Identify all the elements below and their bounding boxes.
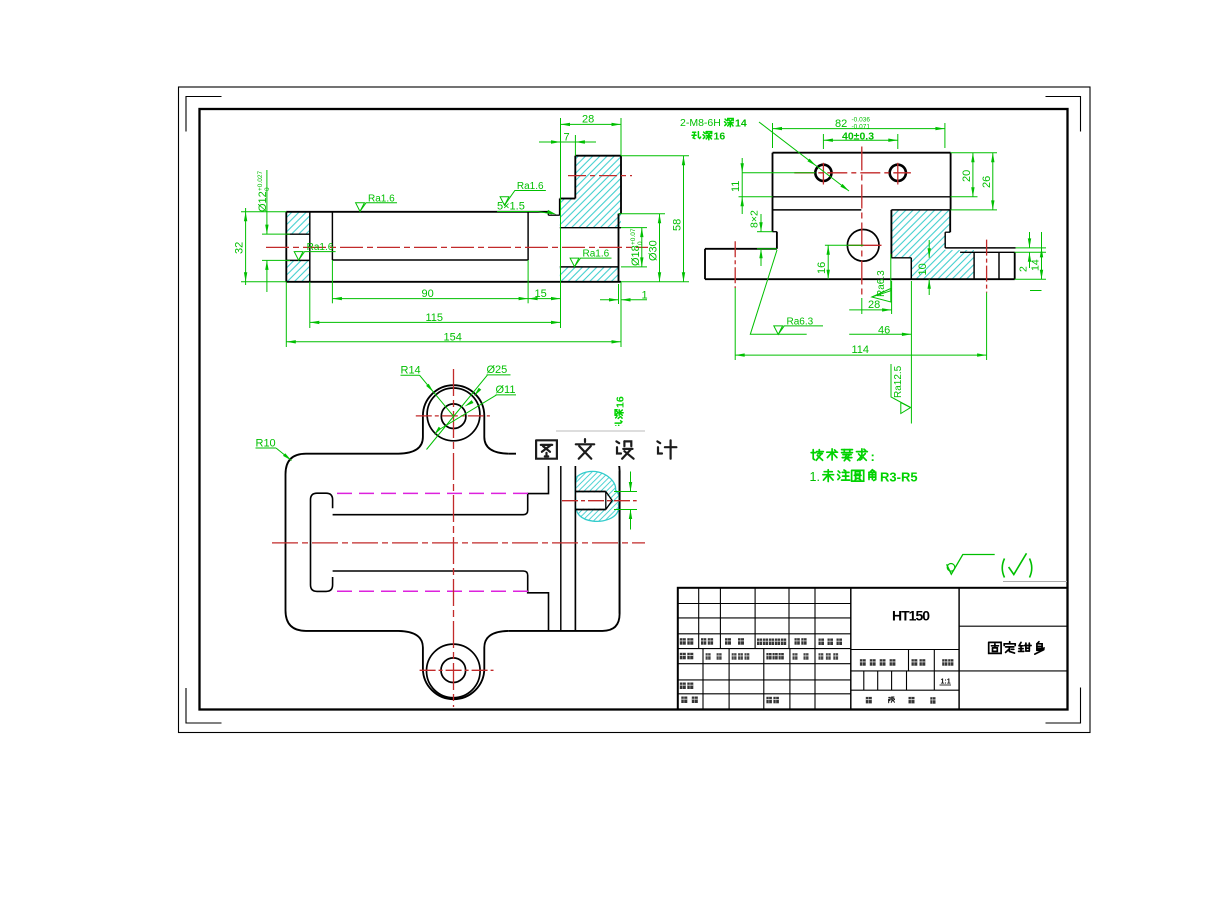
svg-text:1: 1 [642,290,648,302]
svg-text:-0.071: -0.071 [852,123,871,130]
label genggai wenjianhao [757,639,762,646]
svg-text:15: 15 [535,288,547,300]
title mid col a [908,650,910,671]
view2 hatch block left face [890,210,892,258]
svg-text:20: 20 [961,170,973,182]
view2 section hatch [891,210,974,279]
dim dia12 +0.027 [262,233,290,235]
svg-text:1.: 1. [810,470,820,484]
view1 bottom edge [286,281,621,283]
corner mark top-right [1046,97,1081,132]
view2 small notch top [945,231,950,233]
view1 boss step horizontal [560,198,576,200]
view1 bore12 top [286,233,310,235]
label pizhun [766,697,772,704]
svg-text:58: 58 [672,219,684,231]
svg-text:Ø18: Ø18 [630,245,642,266]
svg-text:8×2: 8×2 [749,210,761,228]
view3 bottom lug [399,631,509,699]
view3 body outline [286,454,399,631]
view2 left hole vertical centerline [822,163,824,185]
view2 small notch face [944,232,946,248]
default roughness checkmark [947,555,995,575]
dim 28 [560,118,562,212]
dim dia30 [619,213,666,215]
title small col x863.8 [863,671,865,690]
Ra1.6 near groove [500,197,509,206]
view1 right face upper [620,156,622,214]
dim 8x2 [757,231,773,233]
Ra6.3 with leader [750,250,806,334]
svg-text:46: 46 [878,325,890,337]
view1 right boss hatch lower [560,267,619,282]
svg-text:0: 0 [637,241,644,245]
svg-text:10: 10 [917,263,929,275]
view1 right step [619,213,622,215]
label nian yue ri [819,639,825,646]
dim 32 [241,211,286,213]
dim 58 [621,155,689,157]
view2 top block top edge [773,152,951,154]
view3 side hole knockout [576,493,611,509]
label gongyi [681,697,687,704]
title block outer [678,588,1068,710]
view2 right face of block [950,153,952,210]
view2 vertical centerline [861,147,863,299]
view2 notch right wall [910,258,912,279]
label biaozhunhua [766,653,771,660]
view1 top edge [286,211,548,213]
label jieduanbiaoji [860,659,866,666]
watermark box [516,426,684,466]
svg-text:+0.07: +0.07 [630,228,637,245]
dim 14 [1015,278,1046,280]
Ra6.3 rotated on bore [872,254,891,297]
view2 8x2 step face [776,232,778,249]
label qianming [795,638,800,645]
svg-text:Ø30: Ø30 [648,240,660,261]
view3 top lug circle dia25 [427,388,480,441]
Ra12.5 rotated [891,364,911,408]
label shenhe [680,683,686,690]
label gong [866,697,872,704]
view1 boss hole centerline [568,175,632,177]
title col upper x815.0 [814,588,816,649]
title col lower x703.0 [702,649,704,710]
view3 top lug cross line [416,415,490,417]
svg-text:32: 32 [234,242,246,254]
label sheji [680,653,686,660]
svg-text:2: 2 [1018,266,1030,272]
title mid row3 [851,689,959,691]
svg-text:14: 14 [735,118,747,130]
view2 notch top [891,257,911,259]
dim 115 [309,282,311,328]
view2 tail second line [960,251,1015,253]
leader 2-M8-6H deep14 [759,122,849,191]
dim side hole diameter [614,491,637,493]
view2 flange left face [704,249,706,279]
view3 bottom lug hole dia11 [441,658,466,683]
corner mark bottom-right [1046,688,1081,724]
view1 boss lower step face [559,199,561,216]
view2 shelf line right [891,209,950,211]
svg-text:HT150: HT150 [892,608,930,624]
dim 2 [1016,247,1047,249]
svg-text:40±0.3: 40±0.3 [842,130,874,142]
corner mark top-left [186,97,222,132]
view1 slot left wall [331,212,333,260]
view2 tail right face [1014,252,1016,279]
title right divider [958,588,960,710]
view2 left lug hole centerline [734,241,736,288]
view3 side hole centerline [562,500,637,502]
title right row1 [959,625,1067,627]
view1 bore18 top [560,227,621,229]
svg-text:Ra1.6: Ra1.6 [583,249,610,260]
view2 top block lower line [773,196,951,198]
label ye [930,697,935,704]
view3 broken-out section blob [575,471,619,521]
title mid divider [850,588,852,710]
view2 shelf line left [773,209,862,211]
watermark text tu wen she ji [536,440,557,458]
svg-text:114: 114 [852,344,870,356]
view3 top lug [399,385,509,454]
label zhang [889,697,891,699]
svg-text:0: 0 [264,187,271,191]
title mid row1 [851,649,959,651]
title right row2 [959,670,1067,672]
part name gu ding qian shen [989,642,1001,653]
view1 bore18 bottom [560,266,619,268]
view1 boss top edge [575,155,621,157]
svg-text:Ø12: Ø12 [257,191,269,212]
dim dia18 +0.07 [621,227,647,229]
title row line y679.9 [678,679,851,681]
view3 side hole outline [575,491,605,493]
Ra1.6 on shaft top surface [356,203,365,212]
title small col x906.5 [906,671,908,690]
svg-text:28: 28 [868,299,880,311]
watermark remnant line [556,430,645,432]
label (nianyueri) 2 [819,653,824,660]
view3 slot upper edge [333,454,549,515]
dim 26 [951,209,997,211]
view3 step lines over blob [574,454,576,631]
view2 tail top line [945,247,1015,249]
title col upper x755.1 [754,588,756,649]
svg-text:Ra6.3: Ra6.3 [787,316,814,327]
svg-text:82: 82 [835,118,847,130]
view1 bore12 bottom [286,259,310,261]
drawing inner border [200,109,1068,710]
svg-text:Ra1.6: Ra1.6 [368,193,395,204]
title mid col b [933,650,935,671]
view3 bottom lug cross line [420,669,494,671]
title row line y663.7 [678,663,851,665]
view2 tapped hole M8 left [815,165,831,181]
view1 slot right wall [527,212,529,260]
svg-text:7: 7 [564,131,570,143]
dim 28 [861,298,863,314]
label (nianyueri) [732,653,737,660]
view2 flange top edge [705,248,777,250]
svg-text:+0.027: +0.027 [257,171,264,191]
svg-text:14: 14 [1030,259,1042,271]
view2 hatch block right face [949,210,951,232]
drawing outer border [179,87,1091,733]
title mid row2 [851,670,959,672]
svg-text:R3-R5: R3-R5 [880,469,918,484]
svg-text:90: 90 [422,288,434,300]
technical requirements heading [811,450,823,461]
title col lower x729.1 [728,649,730,710]
svg-text:1:1: 1:1 [941,679,951,686]
title col upper x698.7 [698,588,700,649]
svg-text::: : [871,449,875,464]
svg-text:115: 115 [426,312,444,324]
view3 step line 1 [560,454,562,631]
label (qianming) 2 [793,653,798,660]
title row line y648.6 [678,648,851,650]
parenthesized checkmark [1002,559,1004,578]
svg-text:28: 28 [582,114,594,126]
view2 right hole vertical centerline [897,163,899,185]
label zhongliang [912,659,918,666]
view1 groove bottom 5x1.5 [548,214,560,216]
title col upper x789.0 [788,588,790,649]
title col lower x789.9 [789,649,791,710]
title row line y603.5 [678,603,851,605]
svg-text:Ra1.6: Ra1.6 [517,181,544,192]
title col lower x815.0 [814,649,816,710]
title small col x877.7 [877,671,879,690]
svg-text:16: 16 [816,262,828,274]
title col lower x763.8 [763,649,765,710]
corner mark bottom-left [186,688,222,723]
dim 46 [910,281,912,400]
svg-text:16: 16 [714,131,726,143]
view1 right boss hatch upper [560,156,621,228]
Ra1.6 on bore18 surface [570,258,579,267]
view1 main centerline [266,246,648,248]
view2 bottom edge [705,278,1015,280]
view2 tail divider 2 [998,252,1000,279]
svg-text:26: 26 [981,176,993,188]
view1 slot bottom edge [332,259,528,261]
label (qianming) [706,653,711,660]
title row line y617.9 [678,617,851,619]
view3 inner slot capsule [311,493,333,591]
dim 1 [618,284,620,304]
label biaoji [680,638,686,645]
Ra1.6 on bore12 surface [294,252,303,261]
svg-text:Ra1.6: Ra1.6 [307,242,334,253]
dim 11 [742,172,815,174]
view3 top lug hole dia11 [441,404,466,429]
dim 7 [574,135,576,156]
view2 tail divider 1 [973,252,975,279]
view1 flange inner wall [309,212,311,282]
view2 holes centerline [794,172,911,174]
view1 right face lower [618,214,620,282]
dim 20 [951,152,997,154]
view1 left face [285,212,287,282]
svg-text:Ra6.3: Ra6.3 [876,270,887,297]
title small col x891.6 [891,671,893,690]
view2 tapped hole M8 right [890,165,906,181]
label di [909,697,915,704]
dim 154 [285,282,287,347]
dim 10 [928,240,930,258]
view3 hidden line upper [337,492,532,494]
title small col last [933,671,935,690]
view3 hidden line lower [337,590,532,592]
dim 114 [734,288,736,360]
view3 vertical centerline [453,369,455,707]
view2 8x2 step top [773,231,777,233]
title col upper x720.4 [719,588,721,649]
label shen14 [725,119,726,120]
svg-text:5×1.5: 5×1.5 [497,201,525,213]
dim 82 with tolerance [772,123,774,148]
watermark remnant line 2 [1003,581,1067,583]
dim 15 [560,212,562,328]
label fenqu [725,638,731,645]
svg-text:154: 154 [444,332,462,344]
view2 right lug hole centerline [986,240,988,293]
svg-text:16: 16 [615,396,627,408]
dim 16 [825,244,864,246]
view2 left face [772,153,774,232]
label hole depth 16 [692,132,701,139]
label bili [942,659,947,666]
view3 horizontal centerline [272,542,645,544]
view3 step line 2 [574,454,576,631]
view1 groove left wall [547,212,549,215]
view2 bore cross centerline [849,244,882,246]
view1 boss front face [574,156,576,199]
svg-text:2-M8-6H: 2-M8-6H [680,117,721,129]
dim 90 [331,260,333,303]
svg-text:11: 11 [730,181,742,192]
svg-text:Ra12.5: Ra12.5 [893,365,904,398]
title row line y693.8 [678,693,851,695]
view3 bottom lug circle dia25 [427,644,481,698]
view1 left flange hatch top [287,212,310,234]
label hole depth 16 vertical [615,396,627,429]
dim 40 +-0.3 [822,134,824,149]
label chushu [701,638,706,645]
view3 slot lower edge [333,571,549,631]
title row line y633.8 [678,633,851,635]
view1 left flange hatch bottom [287,260,310,281]
view2 screw bore circle [847,230,879,262]
